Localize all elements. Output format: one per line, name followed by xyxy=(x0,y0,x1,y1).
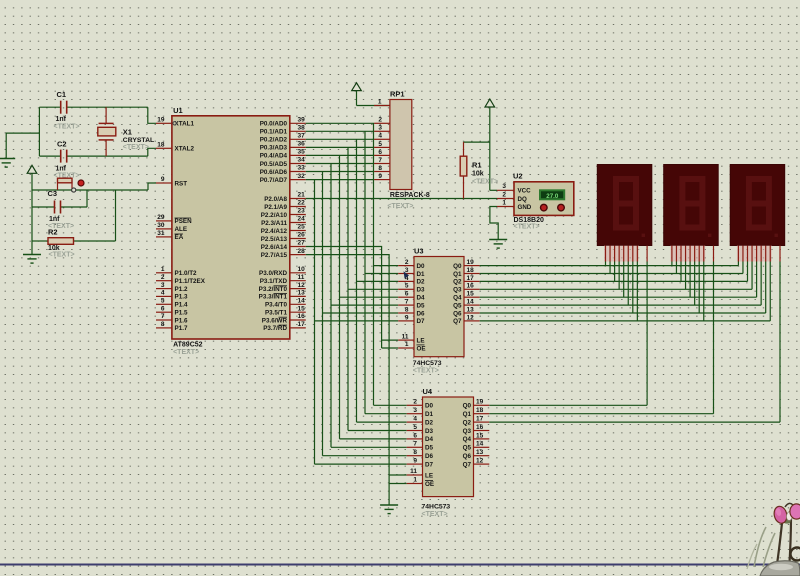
U2 LCD display xyxy=(540,190,564,199)
pin 21 P2.0/A8 U1 xyxy=(290,198,306,200)
svg-text:Q1: Q1 xyxy=(453,271,462,278)
latch U4 box xyxy=(423,397,474,497)
pin 7 RP1 xyxy=(374,163,390,165)
op U1 box xyxy=(172,116,290,339)
svg-text:<TEXT>: <TEXT> xyxy=(514,223,540,230)
wire segment row 3 xyxy=(480,288,752,290)
svg-text:5: 5 xyxy=(405,283,409,290)
7seg 3 segment pin 4 xyxy=(756,246,758,262)
7seg 1 segment pin 2 xyxy=(614,246,616,262)
wire U4 Q2 to display3 xyxy=(489,421,780,423)
ground below U2 xyxy=(489,239,507,241)
svg-text:13: 13 xyxy=(298,290,306,297)
7seg 1 segment pin 5 xyxy=(627,246,629,262)
wire bus to U4 D4 xyxy=(340,438,407,440)
wire P2.6 to U3 LE xyxy=(306,247,382,349)
svg-text:Q3: Q3 xyxy=(453,287,462,294)
svg-text:P3.7/RD: P3.7/RD xyxy=(263,325,287,332)
svg-text:D4: D4 xyxy=(425,436,434,443)
wire C2 row xyxy=(39,155,60,157)
pin 1 GND U2 xyxy=(497,206,514,208)
svg-text:LE: LE xyxy=(425,472,433,479)
pin 33 P0.6/AD6 U1 xyxy=(290,171,306,173)
svg-text:15: 15 xyxy=(467,291,475,298)
pin 2 DQ U2 xyxy=(497,198,514,200)
svg-text:C2: C2 xyxy=(57,140,67,149)
pin 7 P1.6 U1 xyxy=(156,319,172,321)
pin 3 P1.2 U1 xyxy=(156,288,172,290)
wire P0.3 to RP1 xyxy=(306,146,374,148)
pin 9 D7 U4 xyxy=(407,463,423,465)
svg-text:30: 30 xyxy=(157,222,165,229)
svg-text:P3.1/TXD: P3.1/TXD xyxy=(260,278,288,285)
svg-text:Q3: Q3 xyxy=(463,428,472,435)
svg-text:P0.3/AD3: P0.3/AD3 xyxy=(260,145,288,152)
wire U3 LE branch xyxy=(382,339,399,341)
7seg 2 segment pin 6 xyxy=(698,246,700,262)
svg-text:D6: D6 xyxy=(417,310,426,317)
svg-text:13: 13 xyxy=(476,449,484,456)
7seg display 2 pin glow xyxy=(670,246,705,262)
pin 6 RP1 xyxy=(374,154,390,156)
svg-text:9: 9 xyxy=(405,314,409,321)
svg-text:D1: D1 xyxy=(425,411,434,418)
svg-text:DQ: DQ xyxy=(518,196,527,203)
svg-text:22: 22 xyxy=(298,200,306,207)
svg-text:P0.4/AD4: P0.4/AD4 xyxy=(260,153,288,160)
pin 13 Q6 U3 xyxy=(464,312,480,314)
7seg 2 segment pin 1 xyxy=(675,246,677,262)
svg-text:74HC573: 74HC573 xyxy=(422,504,451,511)
svg-text:39: 39 xyxy=(298,117,306,124)
pin 3 D1 U4 xyxy=(407,413,423,415)
svg-text:EA: EA xyxy=(175,234,184,241)
svg-text:2: 2 xyxy=(378,117,382,124)
7seg 3 segment pin 3 xyxy=(751,246,753,262)
crystal X1 xyxy=(99,122,114,124)
svg-text:Q6: Q6 xyxy=(463,453,472,460)
svg-text:12: 12 xyxy=(467,314,475,321)
svg-text:8: 8 xyxy=(378,165,382,172)
svg-text:1: 1 xyxy=(378,98,382,105)
pin 17 Q2 U4 xyxy=(474,421,490,423)
pin 38 P0.1/AD1 U1 xyxy=(290,130,306,132)
svg-text:4: 4 xyxy=(161,290,165,297)
svg-text:D1: D1 xyxy=(417,271,426,278)
pin 4 D2 U4 xyxy=(407,421,423,423)
wire bus to U3 D5 xyxy=(331,304,398,306)
svg-text:AT89C52: AT89C52 xyxy=(173,342,203,349)
flower clipart xyxy=(754,527,766,567)
svg-text:9: 9 xyxy=(161,176,165,183)
svg-text:17: 17 xyxy=(298,321,306,328)
pin 32 P0.7/AD7 U1 xyxy=(290,179,306,181)
svg-text:21: 21 xyxy=(298,192,306,199)
pin 5 D3 U3 xyxy=(398,288,414,290)
7seg 1 segment pin 4 xyxy=(623,246,625,262)
crystal X1 leads xyxy=(105,107,107,123)
svg-text:D4: D4 xyxy=(417,295,426,302)
svg-text:12: 12 xyxy=(298,282,306,289)
svg-text:P3.5/T1: P3.5/T1 xyxy=(265,310,288,317)
svg-text:C3: C3 xyxy=(48,189,58,198)
7seg 2 segment pin 5 xyxy=(694,246,696,262)
pin 19 Q0 U4 xyxy=(474,404,490,406)
pin 1 OE U4 xyxy=(407,483,423,485)
svg-text:VCC: VCC xyxy=(518,187,532,194)
pin 39 P0.0/AD0 U1 xyxy=(290,122,306,124)
7seg 2 segment pin 2 xyxy=(680,246,682,262)
pin 19 Q0 U3 xyxy=(464,265,480,267)
svg-text:P2.0/A8: P2.0/A8 xyxy=(264,196,287,203)
wire bus vertical b5 xyxy=(330,164,332,448)
svg-text:D0: D0 xyxy=(417,263,426,270)
svg-text:10k: 10k xyxy=(472,171,484,178)
svg-text:17: 17 xyxy=(476,416,484,423)
pin 27 P2.6/A14 U1 xyxy=(290,246,306,248)
svg-text:5: 5 xyxy=(378,141,382,148)
svg-text:1: 1 xyxy=(502,199,506,206)
svg-text:1: 1 xyxy=(161,266,165,273)
wire U2 VCC xyxy=(490,189,497,191)
7seg 1 segment pin 0 xyxy=(605,246,607,262)
pin 1 OE U3 xyxy=(398,347,414,349)
svg-text:19: 19 xyxy=(157,117,165,124)
wire bus vertical b4 xyxy=(339,155,341,439)
svg-text:18: 18 xyxy=(476,407,484,414)
wire to left ground xyxy=(6,133,39,158)
7seg display 1 pin glow xyxy=(604,246,639,262)
wire segment row 2 xyxy=(480,280,748,282)
7seg display 2 body xyxy=(664,165,719,246)
resistor R1 xyxy=(463,142,465,156)
capacitor C2 xyxy=(60,150,62,163)
svg-text:LE: LE xyxy=(417,337,425,344)
svg-text:27.0: 27.0 xyxy=(546,193,559,200)
svg-text:D2: D2 xyxy=(417,279,426,286)
svg-text:6: 6 xyxy=(161,305,165,312)
wire U4 Q1 to display2 xyxy=(489,413,713,415)
pin 2 D0 U4 xyxy=(407,404,423,406)
svg-text:D0: D0 xyxy=(425,403,434,410)
pin 5 P1.4 U1 xyxy=(156,303,172,305)
svg-text:8: 8 xyxy=(161,321,165,328)
svg-text:11: 11 xyxy=(402,333,409,340)
svg-text:CRYSTAL: CRYSTAL xyxy=(123,137,154,144)
pin 9 RP1 xyxy=(374,179,390,181)
wire bus vertical b0 xyxy=(373,123,375,405)
wire bus to U3 D3 xyxy=(348,288,398,290)
pin 15 Q4 U3 xyxy=(464,296,480,298)
svg-text:6: 6 xyxy=(405,291,409,298)
svg-text:Q7: Q7 xyxy=(453,318,462,325)
pin 7 D5 U3 xyxy=(398,304,414,306)
wire U4 OE branch xyxy=(389,483,407,485)
7seg 3 segment pin 6 xyxy=(765,246,767,262)
svg-text:P0.5/AD5: P0.5/AD5 xyxy=(260,161,288,168)
pin 16 Q3 U4 xyxy=(474,430,490,432)
resistor-pack RP1 box xyxy=(390,100,412,190)
svg-text:P3.4/T0: P3.4/T0 xyxy=(265,302,288,309)
7seg 2 common pin xyxy=(713,246,715,262)
pin 26 P2.5/A13 U1 xyxy=(290,238,306,240)
pin 4 P1.3 U1 xyxy=(156,295,172,297)
svg-text:14: 14 xyxy=(467,299,475,306)
pin 12 Q7 U4 xyxy=(474,463,490,465)
svg-text:RST: RST xyxy=(175,180,188,187)
svg-text:P2.1/A9: P2.1/A9 xyxy=(264,204,287,211)
svg-text:<TEXT>: <TEXT> xyxy=(413,368,439,375)
pin 31 EA U1 xyxy=(156,236,172,238)
pin 4 D2 U3 xyxy=(398,280,414,282)
pin 18 XTAL2 U1 xyxy=(156,147,172,149)
svg-text:D7: D7 xyxy=(417,318,426,325)
svg-text:Q2: Q2 xyxy=(453,279,462,286)
svg-text:C1: C1 xyxy=(57,90,67,99)
svg-text:2: 2 xyxy=(405,259,409,266)
svg-text:Q6: Q6 xyxy=(453,310,462,317)
svg-text:P3.2/INT0: P3.2/INT0 xyxy=(259,286,288,293)
pin 8 RP1 xyxy=(374,171,390,173)
svg-text:Q4: Q4 xyxy=(463,436,472,443)
pin 8 D6 U4 xyxy=(407,455,423,457)
svg-text:X1: X1 xyxy=(123,128,132,137)
svg-text:U4: U4 xyxy=(423,387,433,396)
svg-text:14: 14 xyxy=(298,298,306,305)
svg-text:P2.5/A13: P2.5/A13 xyxy=(261,236,288,243)
wire bus to U3 D6 xyxy=(323,312,399,314)
wire bus to U4 D6 xyxy=(323,455,407,457)
svg-text:R1: R1 xyxy=(472,161,482,170)
wire P0.0 to RP1 xyxy=(306,122,374,124)
svg-text:D5: D5 xyxy=(417,302,426,309)
pin 6 D4 U4 xyxy=(407,438,423,440)
svg-text:36: 36 xyxy=(298,141,306,148)
wire bus to U4 D2 xyxy=(357,421,407,423)
pin 37 P0.2/AD2 U1 xyxy=(290,138,306,140)
svg-text:3: 3 xyxy=(378,125,382,132)
wire C3 right vertical xyxy=(86,190,88,207)
svg-text:Q4: Q4 xyxy=(453,295,462,302)
svg-text:25: 25 xyxy=(298,224,306,231)
svg-text:P2.7/A15: P2.7/A15 xyxy=(261,252,288,259)
pin 9 D7 U3 xyxy=(398,320,414,322)
wire segment row 0 xyxy=(480,265,739,267)
pin 29 PSEN U1 xyxy=(156,220,172,222)
svg-text:15: 15 xyxy=(298,305,306,312)
7seg 2 segment pin 4 xyxy=(689,246,691,262)
pin 4 RP1 xyxy=(374,138,390,140)
pin 36 P0.3/AD3 U1 xyxy=(290,146,306,148)
svg-text:OE: OE xyxy=(417,345,426,352)
svg-text:<TEXT>: <TEXT> xyxy=(54,124,80,131)
svg-text:1nf: 1nf xyxy=(56,116,67,123)
pin 9 RST U1 xyxy=(156,182,172,184)
svg-text:3: 3 xyxy=(413,407,417,414)
svg-text:<TEXT>: <TEXT> xyxy=(123,144,149,151)
7seg 3 segment pin 1 xyxy=(742,246,744,262)
svg-text:P1.6: P1.6 xyxy=(175,317,188,324)
svg-text:D3: D3 xyxy=(417,287,426,294)
U2 led 1 xyxy=(541,204,548,211)
svg-text:28: 28 xyxy=(298,248,306,255)
pin 6 D4 U3 xyxy=(398,296,414,298)
svg-text:16: 16 xyxy=(476,424,484,431)
pin 7 D5 U4 xyxy=(407,446,423,448)
svg-text:15: 15 xyxy=(476,432,484,439)
wire bus to U3 D0 xyxy=(374,265,399,267)
wire P0.4 to RP1 xyxy=(306,154,374,156)
svg-text:U1: U1 xyxy=(173,106,183,115)
svg-text:14: 14 xyxy=(476,441,484,448)
svg-text:<TEXT>: <TEXT> xyxy=(387,203,413,210)
pin 1 RP1 xyxy=(357,105,390,107)
svg-text:<TEXT>: <TEXT> xyxy=(49,252,75,259)
wire XTAL1 step xyxy=(148,107,156,123)
svg-text:<TEXT>: <TEXT> xyxy=(173,349,199,356)
svg-text:11: 11 xyxy=(298,274,305,281)
7seg display 3 body xyxy=(730,165,785,246)
svg-text:7: 7 xyxy=(413,441,417,448)
pin 30 ALE U1 xyxy=(156,228,172,230)
svg-text:D7: D7 xyxy=(425,461,434,468)
capacitor C3 xyxy=(54,201,56,214)
U2 led 2 xyxy=(558,204,565,211)
wire U4 LE branch xyxy=(389,474,407,476)
svg-text:31: 31 xyxy=(157,230,165,237)
svg-text:U3: U3 xyxy=(414,247,424,256)
svg-text:19: 19 xyxy=(476,399,484,406)
7seg 1 segment pin 6 xyxy=(632,246,634,262)
pin 16 Q3 U3 xyxy=(464,288,480,290)
cursor arrow xyxy=(404,271,410,278)
pin 3 VCC U2 xyxy=(497,189,514,191)
svg-text:Q0: Q0 xyxy=(453,263,462,270)
svg-text:23: 23 xyxy=(298,208,306,215)
7seg 1 segment pin 3 xyxy=(618,246,620,262)
pin 17 P3.7/RD U1 xyxy=(290,327,306,329)
pin 12 Q7 U3 xyxy=(464,320,480,322)
ground left xyxy=(0,158,15,160)
svg-text:2: 2 xyxy=(161,274,165,281)
svg-text:P2.4/A12: P2.4/A12 xyxy=(261,228,288,235)
7seg 2 segment pin 0 xyxy=(671,246,673,262)
pin 14 P3.4/T0 U1 xyxy=(290,303,306,305)
pin 11 LE U4 xyxy=(407,474,423,476)
svg-text:<TEXT>: <TEXT> xyxy=(472,178,498,185)
svg-text:26: 26 xyxy=(298,232,306,239)
7seg 3 segment pin 0 xyxy=(737,246,739,262)
svg-text:11: 11 xyxy=(410,468,417,475)
wire P0.1 to RP1 xyxy=(306,130,374,132)
svg-text:38: 38 xyxy=(298,125,306,132)
svg-text:4: 4 xyxy=(413,416,417,423)
svg-text:RP1: RP1 xyxy=(390,90,405,99)
ground below U4 xyxy=(380,504,398,506)
wire RST step xyxy=(148,183,156,190)
svg-text:9: 9 xyxy=(378,173,382,180)
wire segment row 4 xyxy=(480,296,757,298)
svg-text:8: 8 xyxy=(413,449,417,456)
pin 14 Q5 U3 xyxy=(464,304,480,306)
svg-text:5: 5 xyxy=(161,298,165,305)
svg-text:U2: U2 xyxy=(513,171,523,180)
power arrow reset xyxy=(27,165,37,173)
svg-text:D5: D5 xyxy=(425,445,434,452)
svg-text:XTAL2: XTAL2 xyxy=(175,146,195,153)
svg-text:29: 29 xyxy=(157,214,165,221)
svg-text:Q5: Q5 xyxy=(463,445,472,452)
latch U3 box xyxy=(414,257,464,357)
wire left vertical reset xyxy=(31,190,33,255)
pin 2 D0 U3 xyxy=(398,265,414,267)
svg-text:P3.0/RXD: P3.0/RXD xyxy=(259,270,287,277)
7seg 2 segment pin 7 xyxy=(703,246,705,262)
pin 5 RP1 xyxy=(374,146,390,148)
wire bus vertical b2 xyxy=(356,139,358,422)
svg-text:D3: D3 xyxy=(425,428,434,435)
svg-text:37: 37 xyxy=(298,133,306,140)
pin 25 P2.4/A12 U1 xyxy=(290,230,306,232)
svg-text:2: 2 xyxy=(502,191,506,198)
wire R2 right vertical xyxy=(115,190,117,241)
wire P2.7 vertical xyxy=(306,255,389,505)
svg-text:13: 13 xyxy=(467,306,475,313)
wire P0.2 to RP1 xyxy=(306,138,374,140)
svg-text:12: 12 xyxy=(476,458,484,465)
pin 11 P3.1/TXD U1 xyxy=(290,280,306,282)
svg-text:GND: GND xyxy=(518,204,532,211)
wire P2.0 to U2 DQ xyxy=(306,198,497,200)
svg-text:P0.0/AD0: P0.0/AD0 xyxy=(260,121,288,128)
7seg 3 common pin xyxy=(779,246,781,262)
svg-text:D2: D2 xyxy=(425,419,434,426)
power arrow U2 xyxy=(485,99,495,107)
svg-text:PSEN: PSEN xyxy=(175,218,193,225)
svg-text:P1.2: P1.2 xyxy=(175,286,188,293)
svg-text:P0.1/AD1: P0.1/AD1 xyxy=(260,129,288,136)
svg-text:7: 7 xyxy=(405,299,409,306)
svg-text:3: 3 xyxy=(502,183,506,190)
svg-text:7: 7 xyxy=(161,313,165,320)
wire P0.6 to RP1 xyxy=(306,171,374,173)
pin 23 P2.2/A10 U1 xyxy=(290,214,306,216)
resistor R2 xyxy=(32,240,48,242)
pin 6 P1.5 U1 xyxy=(156,311,172,313)
wire segment row 5 xyxy=(480,304,761,306)
pin 10 P3.0/RXD U1 xyxy=(290,272,306,274)
svg-text:6: 6 xyxy=(378,149,382,156)
wire segment row 1 xyxy=(480,273,743,275)
thermometer U2 box xyxy=(514,182,574,216)
svg-text:P0.6/AD6: P0.6/AD6 xyxy=(260,169,288,176)
svg-text:7: 7 xyxy=(378,157,382,164)
svg-text:2: 2 xyxy=(413,399,417,406)
svg-text:5: 5 xyxy=(413,424,417,431)
svg-text:17: 17 xyxy=(467,275,475,282)
wire bus to U3 D2 xyxy=(357,280,399,282)
pin 13 P3.3/INT1 U1 xyxy=(290,295,306,297)
pin 35 P0.4/AD4 U1 xyxy=(290,154,306,156)
wire RST row xyxy=(32,189,71,191)
wire bus to U4 D0 xyxy=(374,404,407,406)
svg-text:P3.6/WR: P3.6/WR xyxy=(262,317,288,324)
footer line xyxy=(0,564,800,566)
svg-text:P0.7/AD7: P0.7/AD7 xyxy=(260,177,288,184)
wire left vertical C1-C2 xyxy=(38,107,40,156)
wire bus to U3 D4 xyxy=(340,296,399,298)
svg-text:P1.1/T2EX: P1.1/T2EX xyxy=(175,278,206,285)
